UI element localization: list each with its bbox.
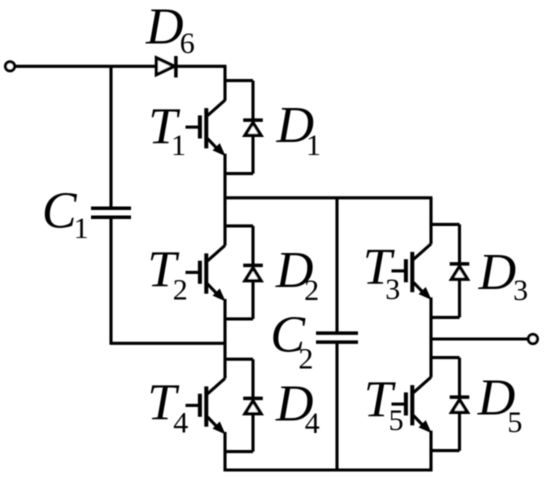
svg-text:1: 1 (306, 129, 321, 162)
svg-text:6: 6 (180, 27, 195, 60)
svg-text:3: 3 (385, 273, 400, 306)
svg-text:C: C (42, 183, 78, 240)
svg-text:2: 2 (298, 342, 313, 375)
svg-text:4: 4 (173, 406, 188, 439)
svg-text:4: 4 (305, 407, 320, 440)
svg-text:5: 5 (507, 406, 522, 439)
svg-text:5: 5 (389, 404, 404, 437)
svg-text:1: 1 (74, 212, 89, 245)
svg-text:2: 2 (304, 274, 319, 307)
svg-text:3: 3 (513, 274, 528, 307)
svg-text:2: 2 (173, 274, 188, 307)
svg-text:D: D (478, 244, 517, 301)
svg-text:1: 1 (171, 129, 186, 162)
svg-text:D: D (145, 0, 184, 56)
